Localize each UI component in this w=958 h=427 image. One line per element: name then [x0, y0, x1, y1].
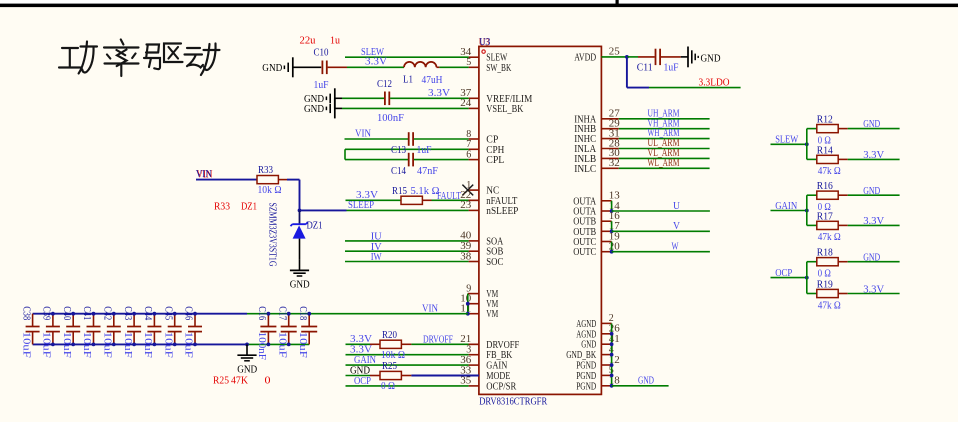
svg-text:C41: C41	[81, 306, 92, 320]
svg-text:SLEW: SLEW	[775, 134, 799, 146]
svg-text:R14: R14	[817, 145, 834, 156]
svg-text:VIN: VIN	[422, 302, 438, 314]
svg-text:U: U	[673, 200, 680, 212]
svg-text:1uF: 1uF	[314, 80, 329, 91]
svg-text:C14: C14	[391, 166, 407, 177]
svg-text:R20: R20	[382, 330, 397, 341]
svg-text:C43: C43	[122, 306, 133, 320]
svg-text:AVDD: AVDD	[574, 51, 596, 63]
svg-text:C44: C44	[142, 306, 153, 320]
svg-text:6: 6	[466, 149, 471, 160]
svg-text:24: 24	[460, 98, 472, 109]
svg-text:C18: C18	[297, 306, 308, 320]
svg-text:OUTC: OUTC	[573, 246, 596, 258]
svg-text:47nF: 47nF	[417, 166, 438, 177]
svg-text:5: 5	[466, 57, 471, 68]
svg-text:47K: 47K	[231, 375, 248, 387]
svg-text:C45: C45	[162, 306, 173, 320]
svg-text:C16: C16	[256, 306, 267, 320]
svg-text:R16: R16	[817, 181, 833, 192]
svg-text:C12: C12	[377, 79, 392, 90]
svg-text:L1: L1	[403, 75, 413, 86]
svg-text:WL_ARM: WL_ARM	[648, 157, 680, 169]
svg-text:C40: C40	[61, 306, 72, 320]
svg-text:C39: C39	[41, 306, 52, 320]
svg-text:PGND: PGND	[576, 380, 596, 392]
svg-text:C17: C17	[276, 306, 287, 320]
svg-text:U3: U3	[479, 36, 490, 48]
svg-text:GND: GND	[863, 251, 880, 263]
svg-text:C38: C38	[20, 306, 31, 320]
svg-text:R12: R12	[817, 115, 833, 126]
svg-text:25: 25	[609, 47, 620, 58]
svg-text:CPL: CPL	[486, 154, 504, 166]
svg-text:10uF: 10uF	[297, 332, 308, 358]
svg-text:5.1k Ω: 5.1k Ω	[411, 186, 440, 197]
svg-text:nSLEEP: nSLEEP	[486, 205, 518, 217]
svg-text:C46: C46	[183, 306, 194, 320]
svg-text:DZ1: DZ1	[241, 201, 257, 213]
svg-text:3.3V: 3.3V	[863, 283, 884, 295]
svg-text:3.3V: 3.3V	[863, 215, 884, 227]
svg-text:DRVOFF: DRVOFF	[423, 333, 453, 345]
svg-text:47k Ω: 47k Ω	[818, 232, 841, 243]
svg-text:3.3V: 3.3V	[863, 149, 884, 161]
svg-text:SZMM3Z3V3ST1G: SZMM3Z3V3ST1G	[266, 203, 277, 267]
svg-text:R25: R25	[382, 361, 397, 372]
svg-text:0 Ω: 0 Ω	[818, 269, 831, 280]
svg-text:R19: R19	[817, 280, 833, 291]
svg-text:GND: GND	[262, 63, 282, 74]
svg-text:OCP/SR: OCP/SR	[486, 380, 517, 392]
svg-text:VSEL_BK: VSEL_BK	[486, 103, 523, 115]
svg-text:R25: R25	[213, 375, 229, 387]
svg-text:47k Ω: 47k Ω	[818, 300, 841, 311]
svg-text:GND: GND	[290, 279, 310, 291]
svg-text:3.3V: 3.3V	[365, 56, 387, 68]
svg-text:SOC: SOC	[486, 256, 503, 268]
svg-text:R15: R15	[392, 186, 407, 197]
svg-text:36: 36	[460, 355, 471, 366]
svg-text:INLC: INLC	[574, 163, 596, 175]
svg-text:OCP: OCP	[354, 375, 371, 387]
svg-text:0: 0	[265, 375, 271, 387]
svg-text:100nF: 100nF	[377, 113, 404, 124]
svg-text:10uF: 10uF	[122, 332, 133, 358]
svg-text:GAIN: GAIN	[354, 354, 376, 366]
svg-text:0 Ω: 0 Ω	[381, 381, 395, 392]
svg-text:47uH: 47uH	[422, 75, 443, 86]
svg-text:2: 2	[609, 313, 614, 324]
svg-text:10uF: 10uF	[61, 332, 72, 358]
svg-text:22u: 22u	[300, 36, 317, 47]
svg-text:VM: VM	[486, 308, 498, 320]
svg-text:23: 23	[460, 200, 471, 211]
svg-text:3.3V: 3.3V	[428, 87, 450, 99]
svg-text:10uF: 10uF	[276, 332, 287, 358]
svg-text:W: W	[672, 241, 680, 253]
svg-text:GAIN: GAIN	[775, 200, 797, 212]
svg-text:GND: GND	[304, 104, 324, 115]
svg-text:1u: 1u	[330, 36, 341, 47]
svg-text:SW_BK: SW_BK	[486, 62, 511, 74]
svg-text:IW: IW	[371, 251, 383, 263]
svg-text:21: 21	[460, 334, 471, 345]
svg-text:1uF: 1uF	[664, 62, 679, 73]
svg-text:DZ1: DZ1	[307, 220, 323, 231]
svg-text:VIN: VIN	[355, 128, 371, 140]
svg-text:C13: C13	[391, 145, 406, 156]
svg-text:DRV8316CTRGFR: DRV8316CTRGFR	[479, 396, 548, 408]
svg-text:32: 32	[609, 158, 620, 169]
svg-text:C11: C11	[637, 62, 653, 73]
svg-text:SLEEP: SLEEP	[348, 199, 374, 211]
svg-text:GND: GND	[237, 363, 257, 375]
svg-text:1uF: 1uF	[417, 145, 432, 156]
svg-text:R18: R18	[817, 248, 833, 259]
svg-text:11: 11	[460, 304, 471, 315]
svg-text:10uF: 10uF	[183, 332, 194, 358]
svg-text:10uF: 10uF	[41, 332, 52, 358]
svg-text:GND: GND	[863, 185, 880, 197]
svg-text:FAULT: FAULT	[437, 190, 461, 202]
svg-text:10uF: 10uF	[142, 332, 153, 358]
svg-text:10uF: 10uF	[162, 332, 173, 358]
svg-text:10uF: 10uF	[81, 332, 92, 358]
svg-text:3: 3	[466, 345, 471, 356]
svg-text:47k Ω: 47k Ω	[818, 166, 841, 177]
svg-text:3.3LDO: 3.3LDO	[699, 77, 730, 89]
svg-text:R17: R17	[817, 211, 833, 222]
svg-text:10k Ω: 10k Ω	[258, 185, 282, 196]
svg-text:C42: C42	[102, 306, 113, 320]
svg-text:R33: R33	[258, 165, 273, 176]
svg-text:V: V	[673, 220, 680, 232]
svg-text:100nF: 100nF	[256, 332, 267, 360]
svg-text:10k Ω: 10k Ω	[381, 350, 405, 361]
svg-text:10uF: 10uF	[20, 332, 31, 358]
svg-text:OCP: OCP	[775, 267, 792, 279]
svg-text:GND: GND	[863, 118, 880, 130]
svg-text:VIN: VIN	[196, 168, 212, 180]
svg-text:R33: R33	[214, 201, 230, 213]
svg-text:C10: C10	[314, 47, 329, 58]
svg-text:35: 35	[460, 376, 471, 387]
svg-text:10uF: 10uF	[102, 332, 113, 358]
svg-text:38: 38	[460, 251, 471, 262]
svg-text:GND: GND	[638, 375, 654, 387]
svg-text:GND: GND	[701, 54, 721, 65]
